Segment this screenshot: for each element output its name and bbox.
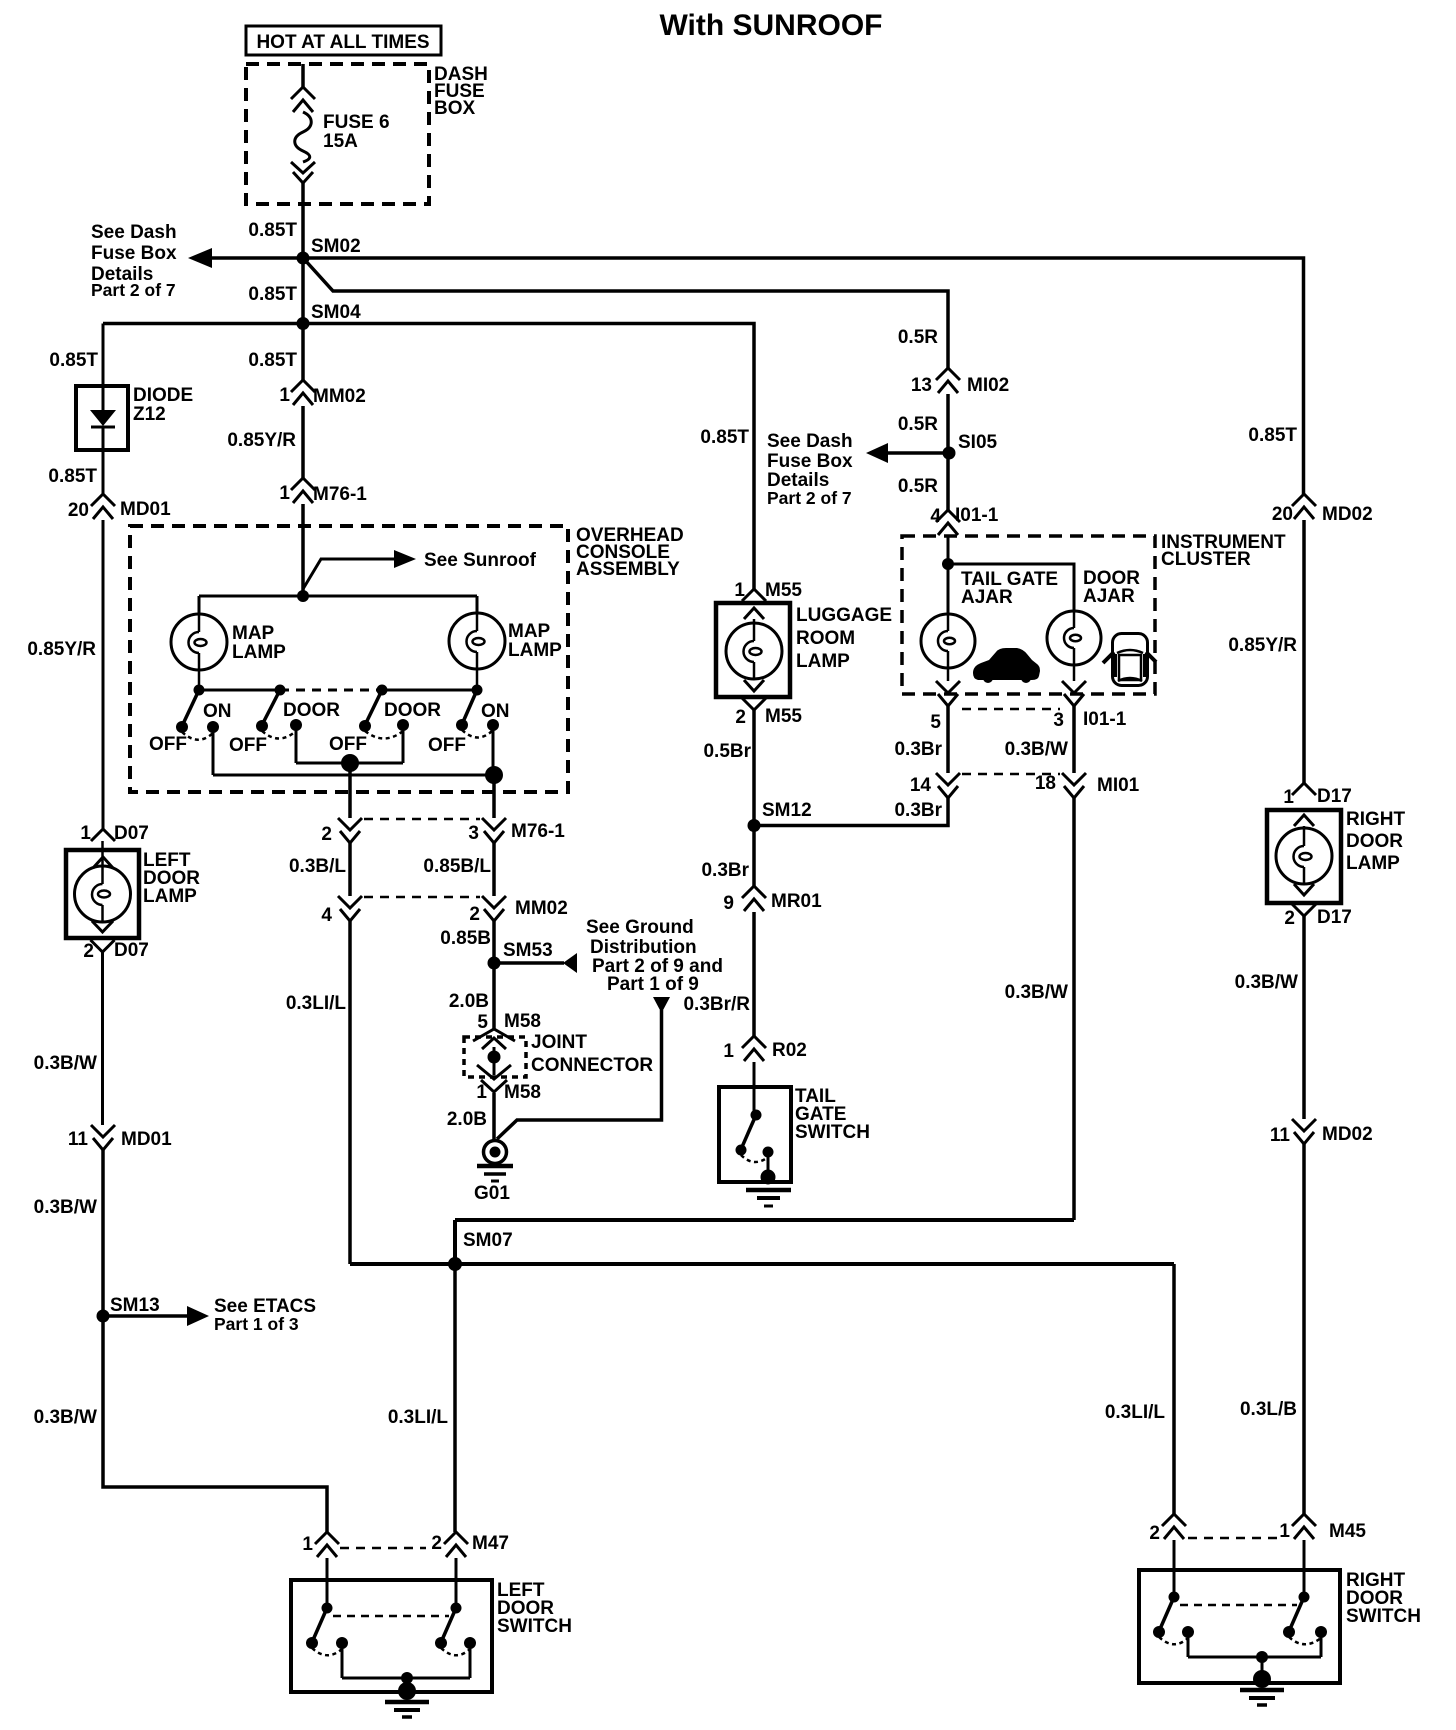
svg-text:0.3B/W: 0.3B/W: [1005, 739, 1068, 760]
svg-text:20: 20: [1272, 504, 1293, 525]
svg-text:2: 2: [321, 824, 332, 845]
wire DOOR junction down to M76-1: [348, 763, 352, 818]
instrument cluster box: [902, 532, 1286, 694]
svg-text:2: 2: [1149, 1523, 1160, 1544]
wire label 0.85Y/R right: [1228, 635, 1297, 656]
svg-text:See Sunroof: See Sunroof: [424, 550, 537, 571]
map lamp left: [171, 614, 286, 690]
svg-text:OFF: OFF: [149, 734, 187, 755]
svg-text:11: 11: [68, 1129, 89, 1150]
overhead console assembly box: [130, 525, 684, 792]
svg-text:2.0B: 2.0B: [449, 991, 489, 1012]
wire label 0.85T main column: [248, 350, 297, 371]
wire label 0.85T left column: [49, 350, 98, 371]
see sunroof arrow: [303, 550, 537, 589]
door ajar label: [1083, 568, 1140, 607]
svg-text:MD02: MD02: [1322, 1124, 1373, 1145]
switch console 4 ON/OFF: [428, 690, 510, 756]
svg-text:SM53: SM53: [503, 940, 553, 961]
switch right door B: [1283, 1592, 1327, 1645]
svg-text:0.5R: 0.5R: [898, 476, 938, 497]
svg-text:1: 1: [1283, 787, 1294, 808]
dashed link I01-1: [962, 708, 1060, 711]
svg-text:1: 1: [279, 385, 290, 406]
wire M58 to ground: [492, 1093, 496, 1140]
svg-text:D07: D07: [114, 823, 149, 844]
wire diode to MD01: [102, 450, 105, 494]
wire label 0.3LI/L center-left: [286, 993, 347, 1014]
diode Z12: [76, 385, 193, 450]
svg-text:0.85Y/R: 0.85Y/R: [227, 430, 296, 451]
svg-text:AJAR: AJAR: [1083, 586, 1135, 607]
tail gate ajar label: [961, 569, 1058, 608]
svg-text:See Dash: See Dash: [767, 431, 853, 452]
node console feed junction: [297, 590, 309, 602]
wire label 0.85T right column: [1248, 425, 1297, 446]
wire label 0.85T below diode: [48, 466, 97, 487]
switch console 2 DOOR/OFF: [229, 690, 340, 756]
svg-text:0.5Br: 0.5Br: [703, 741, 751, 762]
wire SM04 left to diode column: [103, 322, 303, 326]
svg-text:2: 2: [83, 941, 94, 962]
connector M47 pin 1: [302, 1532, 339, 1557]
wire label 0.3LI/L right door: [1105, 1402, 1166, 1423]
svg-text:0.85T: 0.85T: [1248, 425, 1297, 446]
svg-text:OFF: OFF: [229, 735, 267, 756]
right door switch box: [1139, 1570, 1421, 1683]
svg-text:2: 2: [735, 707, 746, 728]
wire right door switch to ground: [1188, 1632, 1321, 1671]
svg-text:CONNECTOR: CONNECTOR: [531, 1055, 653, 1076]
see ground distribution arrow: [494, 917, 723, 995]
switch console 3 DOOR/OFF: [329, 690, 441, 755]
wire cluster door-ajar column to SM07 rail: [455, 1220, 1074, 1264]
svg-text:0.3LI/L: 0.3LI/L: [1105, 1402, 1166, 1423]
connector MR01 pin 9: [723, 886, 822, 914]
wire R02 into tail gate switch: [753, 1062, 756, 1115]
wire M55 to MR01: [752, 710, 756, 886]
wire D17 to MD02 11: [1302, 916, 1306, 1119]
connector MD01 pin 11: [68, 1125, 172, 1150]
door ajar bulb: [1047, 611, 1101, 681]
svg-text:1: 1: [302, 1534, 313, 1555]
wire M76-1 to MM02 right: [492, 843, 496, 896]
svg-text:MAP: MAP: [232, 623, 275, 644]
connector MD02 pin 20: [1272, 494, 1373, 525]
svg-text:0.3Br: 0.3Br: [894, 739, 942, 760]
svg-text:ROOM: ROOM: [796, 628, 855, 649]
svg-text:2: 2: [431, 1533, 442, 1554]
connector MD01 pin 20: [68, 494, 171, 521]
switch tail gate: [736, 1110, 774, 1163]
svg-text:SM04: SM04: [311, 302, 361, 323]
ground right door switch: [1240, 1670, 1284, 1705]
svg-text:D17: D17: [1317, 907, 1352, 928]
svg-text:M55: M55: [765, 706, 802, 727]
title With SUNROOF: [659, 9, 882, 42]
svg-text:0.5R: 0.5R: [898, 414, 938, 435]
svg-text:0.85T: 0.85T: [248, 350, 297, 371]
connector MM02 pin 1: [279, 380, 365, 407]
svg-text:M55: M55: [765, 580, 802, 601]
svg-text:20: 20: [68, 500, 89, 521]
connector MI01 pin 18: [1035, 773, 1140, 798]
node console ON junction: [485, 766, 503, 784]
svg-text:0.3Br/R: 0.3Br/R: [683, 994, 750, 1015]
connector M55 pin 2: [735, 680, 802, 728]
svg-text:With SUNROOF: With SUNROOF: [659, 9, 882, 42]
dashed link M47: [340, 1547, 426, 1550]
connector M76-1 pin 1: [279, 478, 367, 505]
svg-text:18: 18: [1035, 773, 1056, 794]
node SM53: [488, 940, 553, 970]
dashed mechanical link left door switch: [333, 1615, 449, 1618]
wire cluster junction to door ajar bulb: [948, 564, 1074, 611]
connector M76-1 pin 2: [321, 818, 362, 845]
svg-text:SM02: SM02: [311, 236, 361, 257]
svg-text:M45: M45: [1329, 1521, 1366, 1542]
wire SM04 right to luggage lamp column: [303, 324, 754, 590]
svg-text:Fuse Box: Fuse Box: [91, 243, 177, 264]
svg-text:Fuse Box: Fuse Box: [767, 451, 853, 472]
svg-text:FUSE 6: FUSE 6: [323, 112, 390, 133]
svg-text:OFF: OFF: [428, 735, 466, 756]
connector I01-1 pin 5: [930, 681, 960, 733]
wire MD01 11 down to left door switch: [103, 1150, 327, 1532]
dashed link M45: [1188, 1537, 1278, 1540]
joint connector box: [464, 1032, 653, 1077]
svg-text:ON: ON: [481, 701, 510, 722]
svg-text:0.3B/W: 0.3B/W: [34, 1407, 97, 1428]
wire MR01 to R02: [752, 912, 756, 1036]
svg-text:SM07: SM07: [463, 1230, 513, 1251]
svg-text:1: 1: [1279, 1521, 1290, 1542]
wire label 0.85B: [440, 928, 491, 949]
wire SM02 to right column: [303, 258, 1304, 494]
wire label 0.3Br below SM12: [701, 860, 749, 881]
svg-text:SI05: SI05: [958, 432, 998, 453]
ground distribution tap wire: [497, 997, 670, 1139]
svg-text:DIODE: DIODE: [133, 385, 193, 406]
svg-text:MD01: MD01: [121, 1129, 172, 1150]
svg-text:MI02: MI02: [967, 375, 1009, 396]
wire MD02 to D17: [1302, 520, 1306, 783]
svg-text:OFF: OFF: [329, 734, 367, 755]
luggage room lamp box: [716, 603, 892, 697]
wire label 0.85B/L: [423, 856, 491, 877]
wire label 0.5R above SI05: [898, 414, 938, 435]
svg-text:Part 1 of 9: Part 1 of 9: [607, 974, 699, 995]
wire label 0.3B/W right: [1235, 972, 1298, 993]
svg-text:5: 5: [930, 712, 941, 733]
wire SM07 down to M47 pin 2: [453, 1264, 457, 1532]
map lamp right: [449, 613, 562, 690]
wire label 0.3B/W door ajar column: [1005, 982, 1068, 1003]
node SM13: [97, 1295, 160, 1323]
wire label 0.3L/B: [1240, 1399, 1297, 1420]
node SM02: [297, 236, 361, 265]
svg-text:MAP: MAP: [508, 621, 551, 642]
dashed mechanical link right door switch: [1180, 1604, 1297, 1607]
svg-text:9: 9: [723, 893, 734, 914]
svg-text:2: 2: [469, 904, 480, 925]
svg-text:0.85B: 0.85B: [440, 928, 491, 949]
tail gate ajar bulb: [921, 614, 975, 681]
svg-text:0.85T: 0.85T: [248, 284, 297, 305]
svg-text:RIGHT: RIGHT: [1346, 809, 1406, 830]
svg-text:0.85B/L: 0.85B/L: [423, 856, 491, 877]
svg-text:0.85T: 0.85T: [248, 220, 297, 241]
svg-text:CLUSTER: CLUSTER: [1161, 549, 1251, 570]
see ETACS arrow: [103, 1296, 316, 1334]
wire label 0.85T between SM02 SM04: [248, 284, 297, 305]
wire left column to diode: [102, 324, 105, 387]
joint connector node: [488, 1047, 501, 1075]
connector I01-1 pin 4: [930, 505, 998, 535]
svg-text:1: 1: [723, 1041, 734, 1062]
svg-text:LAMP: LAMP: [1346, 853, 1400, 874]
svg-text:LAMP: LAMP: [796, 651, 850, 672]
svg-text:Z12: Z12: [133, 404, 166, 425]
wire label 0.3LI/L left door: [388, 1407, 449, 1428]
svg-text:M76-1: M76-1: [511, 821, 565, 842]
svg-text:13: 13: [911, 375, 932, 396]
right door lamp box: [1267, 809, 1406, 903]
svg-text:2: 2: [1284, 908, 1295, 929]
svg-text:LAMP: LAMP: [143, 886, 197, 907]
connector MI02 pin 13: [911, 368, 1009, 396]
svg-text:1: 1: [734, 580, 745, 601]
connector M58 pin 1: [476, 1065, 541, 1103]
connector MM02 pin 2: [469, 896, 567, 925]
node SM07: [448, 1230, 513, 1271]
connector D07 pin 2: [83, 921, 148, 962]
svg-text:SM12: SM12: [762, 800, 812, 821]
svg-text:DOOR: DOOR: [384, 700, 441, 721]
svg-text:See Ground: See Ground: [586, 917, 694, 938]
wire ON contacts join: [213, 725, 494, 775]
node SI05: [943, 432, 998, 460]
connector D17 pin 2: [1284, 884, 1351, 929]
connector M45 pin 1: [1279, 1514, 1366, 1542]
left door lamp bulb: [75, 841, 131, 922]
svg-text:G01: G01: [474, 1183, 510, 1204]
wire label 0.3Br above SM12 line: [894, 800, 942, 821]
svg-text:I01-1: I01-1: [1083, 709, 1127, 730]
wire label 0.5R above MI02: [898, 327, 938, 348]
wire console switch rail: [194, 685, 483, 696]
tail gate switch box: [719, 1086, 870, 1182]
connector I01-1 pin 3: [1053, 681, 1126, 731]
svg-text:15A: 15A: [323, 131, 358, 152]
svg-text:AJAR: AJAR: [961, 587, 1013, 608]
wire label 0.3B/W cluster: [1005, 739, 1068, 760]
dashed link M76-1: [364, 818, 480, 821]
switch console 1 ON/OFF: [149, 690, 232, 755]
wire label 0.3B/L: [289, 856, 346, 877]
svg-text:BOX: BOX: [434, 98, 476, 119]
connector D07 pin 1: [80, 823, 148, 868]
dash fuse box: [246, 64, 488, 204]
svg-text:0.85T: 0.85T: [49, 350, 98, 371]
svg-text:0.85T: 0.85T: [48, 466, 97, 487]
svg-text:ASSEMBLY: ASSEMBLY: [576, 559, 680, 580]
svg-text:0.3B/W: 0.3B/W: [1005, 982, 1068, 1003]
ground tail gate switch: [746, 1152, 791, 1206]
svg-text:MR01: MR01: [771, 891, 822, 912]
wire label 0.85Y/R: [227, 430, 296, 451]
svg-text:MI01: MI01: [1097, 775, 1140, 796]
wire MM02 pin2 down to M58: [492, 921, 496, 1029]
wire MD02 11 down to M45: [1302, 1144, 1306, 1514]
wire left door switch to ground: [342, 1643, 470, 1688]
svg-text:Part 2 of 7: Part 2 of 7: [91, 280, 176, 300]
svg-text:JOINT: JOINT: [531, 1032, 587, 1053]
node SM12: [748, 800, 812, 832]
svg-text:See Dash: See Dash: [91, 222, 177, 243]
dashed link MI01: [962, 773, 1060, 776]
svg-text:HOT AT ALL TIMES: HOT AT ALL TIMES: [256, 32, 429, 53]
wire D07 to MD01 pin 11: [101, 952, 104, 1125]
wire SM12 to MI01 pin 14: [754, 798, 948, 826]
wire label 0.3Br cluster: [894, 739, 942, 760]
svg-text:0.5R: 0.5R: [898, 327, 938, 348]
svg-text:LAMP: LAMP: [508, 640, 562, 661]
wire label 0.5Br: [703, 741, 751, 762]
node console DOOR junction: [341, 754, 359, 772]
svg-text:D17: D17: [1317, 786, 1352, 807]
svg-text:4: 4: [321, 905, 332, 926]
wire into tail gate ajar bulb: [947, 536, 950, 614]
connector MI01 pin 14: [910, 773, 960, 798]
connector R02 pin 1: [723, 1036, 806, 1062]
svg-text:4: 4: [930, 506, 941, 527]
connector M58 pin 5: [473, 1011, 541, 1049]
wire label 2.0B upper: [449, 991, 489, 1012]
svg-text:0.3L/B: 0.3L/B: [1240, 1399, 1297, 1420]
svg-text:MD02: MD02: [1322, 504, 1373, 525]
svg-text:MD01: MD01: [120, 499, 171, 520]
svg-text:MM02: MM02: [313, 386, 366, 407]
wire MI02 to I01-1: [946, 394, 950, 510]
ground left door switch: [385, 1682, 429, 1717]
left door lamp box: [66, 850, 200, 938]
svg-text:0.85Y/R: 0.85Y/R: [1228, 635, 1297, 656]
svg-text:14: 14: [910, 775, 932, 796]
svg-text:0.3LI/L: 0.3LI/L: [286, 993, 347, 1014]
svg-text:Part 2 of 7: Part 2 of 7: [767, 488, 852, 508]
connector M45 pin 2: [1149, 1514, 1186, 1544]
wire SM07 rail: [350, 1262, 1174, 1266]
svg-text:I01-1: I01-1: [955, 505, 999, 526]
wire label 0.3B/W upper: [34, 1053, 97, 1074]
wire MI01 18 down to SM07 rail: [1072, 798, 1076, 1220]
wire fuse to SM02: [301, 183, 305, 380]
svg-text:0.85T: 0.85T: [700, 427, 749, 448]
svg-text:M58: M58: [504, 1082, 541, 1103]
svg-text:0.3Br: 0.3Br: [701, 860, 749, 881]
node SM04: [297, 302, 362, 330]
car icon side view: [973, 648, 1040, 683]
svg-text:LAMP: LAMP: [232, 642, 286, 663]
see dash fuse box arrow right: [767, 431, 949, 508]
svg-text:2.0B: 2.0B: [447, 1109, 487, 1130]
wire MM02 pin4 down to SM07 rail: [348, 921, 352, 1264]
wire label 0.3Br/R: [683, 994, 750, 1015]
svg-text:0.3LI/L: 0.3LI/L: [388, 1407, 449, 1428]
svg-text:LUGGAGE: LUGGAGE: [796, 605, 892, 626]
svg-text:1: 1: [80, 823, 91, 844]
switch left door A: [306, 1603, 348, 1656]
wire SM07 rail down to M45 pin 2: [1172, 1264, 1176, 1514]
connector MD02 pin 11: [1270, 1119, 1373, 1146]
wire label 2.0B lower: [447, 1109, 487, 1130]
wire MD01 to left door lamp: [102, 520, 105, 829]
svg-text:1: 1: [476, 1082, 487, 1103]
svg-text:3: 3: [468, 823, 479, 844]
connector D17 pin 1: [1283, 783, 1351, 826]
wire DOOR contacts join: [296, 725, 403, 763]
wire label 0.3B/W mid: [34, 1197, 97, 1218]
switch left door B: [435, 1603, 476, 1656]
svg-text:DOOR: DOOR: [1346, 831, 1403, 852]
node cluster junction: [942, 558, 954, 570]
wire SM02 diagonal to instrument cluster column: [304, 259, 948, 368]
fuse F6 15A: [291, 87, 390, 183]
svg-text:1: 1: [279, 483, 290, 504]
connector MM02 pin 4: [321, 896, 362, 926]
svg-text:M58: M58: [504, 1011, 541, 1032]
dashed link MM02: [364, 896, 480, 899]
svg-text:0.3B/W: 0.3B/W: [1235, 972, 1298, 993]
wire into fuse: [301, 64, 305, 87]
svg-text:0.3Br: 0.3Br: [894, 800, 942, 821]
wire label 0.5R below SI05: [898, 476, 938, 497]
wire I01-1 3 to MI01 18: [1072, 706, 1076, 773]
car icon top view doors open: [1103, 634, 1156, 686]
svg-text:ON: ON: [203, 701, 232, 722]
svg-text:SWITCH: SWITCH: [497, 1616, 572, 1637]
wire label 0.85T luggage column: [700, 427, 749, 448]
svg-text:11: 11: [1270, 1125, 1291, 1146]
svg-text:MM02: MM02: [515, 898, 568, 919]
svg-text:M47: M47: [472, 1533, 509, 1554]
hot at all times box: [246, 26, 441, 55]
wire M76-1 into console: [301, 504, 305, 596]
svg-text:M76-1: M76-1: [313, 484, 367, 505]
connector M76-1 pin 3: [468, 818, 565, 844]
svg-text:0.3B/W: 0.3B/W: [34, 1197, 97, 1218]
svg-text:0.3B/W: 0.3B/W: [34, 1053, 97, 1074]
wire label 0.3B/W lower: [34, 1407, 97, 1428]
luggage room lamp bulb: [726, 619, 782, 679]
wires into right door switch: [1174, 1540, 1304, 1597]
wire label 0.85Y/R left: [27, 639, 96, 660]
right door lamp bulb: [1276, 826, 1332, 884]
svg-text:D07: D07: [114, 940, 149, 961]
svg-text:SWITCH: SWITCH: [1346, 1606, 1421, 1627]
wires into left door switch: [327, 1558, 456, 1608]
left door switch box: [291, 1580, 572, 1692]
wire I01-1 5 to MI01 14: [946, 706, 950, 773]
svg-text:3: 3: [1053, 710, 1064, 731]
ground G01: [474, 1141, 513, 1205]
wire ON junction down to M76-1: [492, 775, 496, 818]
connector M55 pin 1: [734, 580, 802, 619]
wire label 0.85T above SM02: [248, 220, 297, 241]
wire M76-1 to MM02 left: [348, 843, 352, 896]
see dash fuse box arrow left: [91, 222, 303, 300]
